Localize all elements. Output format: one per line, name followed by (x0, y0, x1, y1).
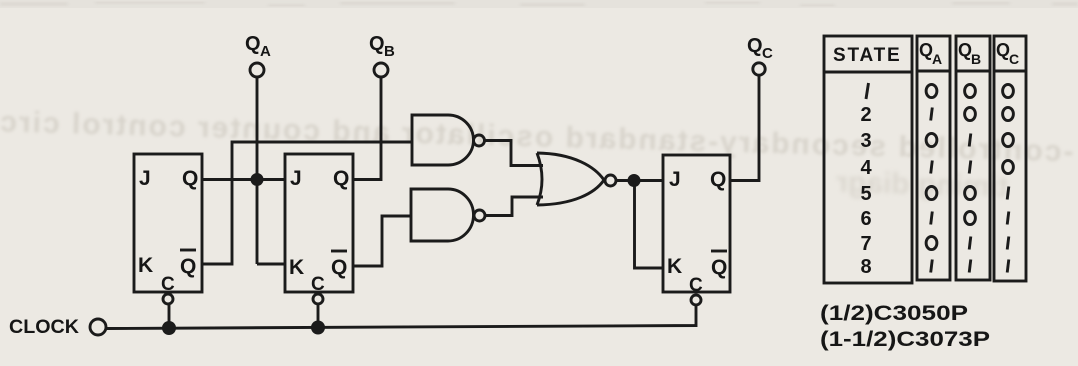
svg-text:A: A (260, 43, 271, 60)
svg-text:K: K (667, 255, 682, 278)
svg-text:Q: Q (710, 168, 726, 191)
flip-flop U1 (JK) box (134, 154, 202, 292)
svg-text:6: 6 (860, 208, 871, 230)
svg-text:K: K (138, 254, 153, 277)
svg-text:J: J (139, 167, 151, 190)
svg-text:B: B (971, 51, 981, 67)
table header separator QA (917, 70, 950, 73)
svg-text:Q: Q (996, 40, 1010, 60)
clock bubble U1 (163, 294, 173, 304)
table row state 1 (866, 83, 869, 99)
svg-text:4: 4 (860, 157, 872, 179)
wire junction down to K of U3 (635, 181, 664, 269)
table QC column box (994, 36, 1026, 281)
terminal QA label (245, 33, 271, 60)
terminal QC label (747, 35, 773, 62)
flip-flop U3 (JK) box (663, 155, 730, 292)
wire QA to K of U2 (257, 263, 285, 266)
svg-text:K: K (289, 256, 304, 279)
bubble G1 (474, 135, 485, 146)
node clock junction U1 (162, 321, 176, 335)
NOR gate G3 (537, 153, 604, 205)
svg-text:2: 2 (860, 104, 871, 126)
ghost bleed-through text band A (0, 105, 1074, 168)
label Qbar (U2) (331, 251, 347, 279)
svg-text:Q: Q (245, 33, 261, 55)
svg-text:CLOCK: CLOCK (9, 316, 79, 338)
svg-text:Q: Q (369, 33, 385, 55)
node clock junction U2 (311, 321, 325, 335)
svg-text:A: A (932, 51, 942, 67)
svg-text:3: 3 (860, 130, 871, 152)
svg-text:7: 7 (860, 233, 871, 255)
svg-text:Q: Q (747, 35, 763, 57)
svg-text:Q: Q (331, 256, 347, 279)
wire G2 output to NOR input (486, 197, 543, 216)
wire QA vertical (256, 77, 259, 264)
wire clock riser U1 (168, 304, 171, 328)
terminal CLOCK circle (90, 319, 106, 335)
svg-text:(1/2)C3050P: (1/2)C3050P (820, 302, 968, 325)
label Qbar (U3) (711, 251, 727, 279)
svg-text:C: C (311, 274, 325, 295)
label Qbar (U1) (180, 250, 196, 278)
wire G1 output to NOR input (485, 141, 543, 166)
svg-text:Q: Q (182, 167, 198, 190)
ghost bleed-through text band B (836, 166, 1009, 204)
svg-text:Q: Q (958, 40, 972, 60)
terminal QB label (369, 33, 395, 60)
table QB column box (956, 36, 990, 280)
clock bubble U3 (691, 295, 701, 305)
terminal QB circle (374, 63, 388, 77)
faint top-edge scan marks (0, 2, 1078, 6)
svg-text:Q: Q (711, 256, 727, 279)
header QB (958, 40, 981, 67)
table header separator QC (994, 70, 1026, 73)
svg-text:C: C (1009, 51, 1019, 67)
node junction QA (251, 173, 264, 186)
svg-text:Q: Q (180, 255, 196, 278)
svg-text:C: C (689, 275, 703, 296)
svg-text:(1-1/2)C3073P: (1-1/2)C3073P (820, 328, 990, 351)
svg-text:C: C (161, 274, 175, 295)
svg-text:8: 8 (860, 256, 871, 278)
table STATE column box (824, 36, 912, 283)
wire Q of U2 up to QB (353, 77, 381, 180)
wire G3 output to J of U3 (616, 179, 663, 182)
terminal QC circle (753, 63, 765, 75)
bubble G3 (605, 175, 616, 186)
svg-text:Q: Q (919, 40, 933, 60)
header QA (919, 40, 942, 67)
svg-text:J: J (290, 167, 302, 190)
header QC (996, 40, 1019, 67)
bubble G2 (474, 210, 485, 221)
wire Q of U1 to J of U2 (202, 178, 285, 181)
table header separator QB (956, 70, 990, 73)
wire clock line (107, 305, 696, 329)
clock bubble U2 (313, 294, 323, 304)
wire Qbar of U1 to NAND G1 input (202, 142, 412, 264)
wire clock riser U2 (317, 304, 320, 328)
svg-text:B: B (384, 43, 395, 60)
svg-text:J: J (669, 168, 681, 191)
table header separator STATE (824, 71, 912, 74)
terminal QA circle (250, 63, 264, 77)
svg-text:5: 5 (860, 183, 871, 205)
wire Qbar of U2 to NAND G2 input (353, 216, 411, 266)
svg-text:Q: Q (333, 167, 349, 190)
wire Q of U3 up to QC (730, 76, 759, 181)
table QA column box (917, 36, 950, 280)
NAND gate G2 (411, 189, 474, 241)
svg-text:C: C (762, 45, 773, 62)
flip-flop U2 (JK) box (285, 154, 353, 292)
NAND gate G1 (412, 115, 474, 165)
svg-text:STATE: STATE (833, 45, 901, 66)
node junction at J of U3 (628, 174, 641, 187)
